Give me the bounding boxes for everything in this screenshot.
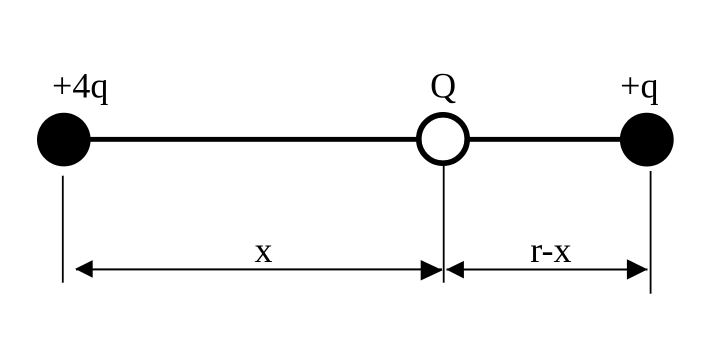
arrowhead right end of x dimension — [421, 260, 443, 281]
charge +4q: filled circle — [37, 113, 91, 167]
wire: main horizontal line right segment (Q to +q) — [443, 137, 648, 142]
svg-text:+q: +q — [620, 66, 658, 106]
wire: main horizontal line left segment (+4q to Q) — [63, 137, 444, 142]
extension line below +4q — [62, 176, 64, 283]
extension line below Q — [443, 165, 445, 283]
arrowhead left end of r-x dimension — [446, 261, 464, 279]
svg-text:Q: Q — [430, 66, 456, 106]
svg-text:r-x: r-x — [530, 230, 571, 270]
arrowhead left end of x dimension — [75, 260, 93, 278]
dimension line for x — [76, 268, 442, 270]
charge +q: filled circle — [620, 113, 674, 167]
charge Q: open circle — [419, 115, 467, 163]
extension line below +q — [650, 171, 652, 294]
svg-text:+4q: +4q — [52, 66, 108, 106]
svg-text:x: x — [255, 230, 273, 270]
arrowhead right end of r-x dimension — [627, 259, 648, 279]
dimension line for r-x — [447, 269, 648, 271]
